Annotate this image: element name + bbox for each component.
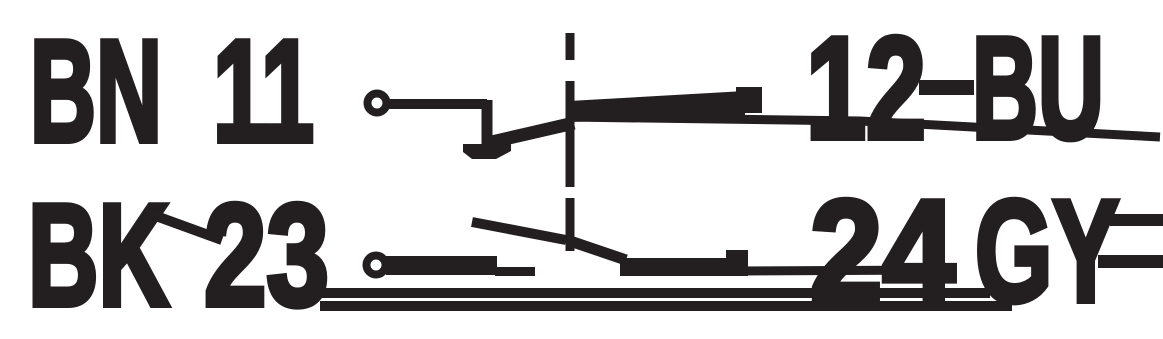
svg-text:23: 23 bbox=[204, 174, 329, 336]
mechanical link dashed line (middle dash) bbox=[566, 81, 575, 187]
fixed contact down leg bbox=[482, 100, 493, 150]
svg-text:11: 11 bbox=[213, 10, 314, 172]
svg-text:BU: BU bbox=[972, 7, 1104, 169]
lower lever thick bar bbox=[620, 258, 740, 276]
lever end bump (pivot) bbox=[736, 87, 762, 113]
wire to terminal 12 (passes behind 12-BU text) bbox=[567, 117, 1160, 137]
terminal 11 circle bbox=[368, 94, 387, 113]
svg-text:12: 12 bbox=[806, 7, 926, 169]
movable lever (thick bar segment) bbox=[569, 91, 745, 122]
wire to terminal 24 (passes behind 24 GY text) bbox=[740, 270, 955, 271]
svg-text:BK: BK bbox=[28, 174, 169, 336]
mechanical link dashed line (top dash) bbox=[566, 33, 575, 60]
actuator line toward lower contact bbox=[472, 222, 566, 240]
long wire L4 bbox=[320, 301, 1012, 311]
terminal 23 circle bbox=[367, 256, 386, 275]
lower lever end bump (pivot) bbox=[726, 250, 748, 276]
actuator stroke through K bbox=[145, 212, 222, 240]
wire from terminal 11 bbox=[386, 99, 487, 109]
dash between 12 and BU bbox=[919, 80, 974, 95]
movable lever (steep segment) bbox=[483, 123, 574, 144]
mechanical link dashed line (bottom dash) bbox=[566, 198, 575, 251]
wire exit right of GY bbox=[1110, 214, 1163, 226]
wire 24 exit segment right of Y bbox=[1098, 255, 1163, 268]
contact foot / arrow tip (NC contact) bbox=[463, 144, 511, 159]
long wire L3 bbox=[322, 288, 990, 298]
thick bar from terminal 23 bbox=[386, 256, 497, 275]
fixed contact stub wire bbox=[495, 267, 535, 276]
svg-text:BN: BN bbox=[30, 10, 162, 172]
lower movable lever (diagonal) bbox=[570, 241, 626, 260]
